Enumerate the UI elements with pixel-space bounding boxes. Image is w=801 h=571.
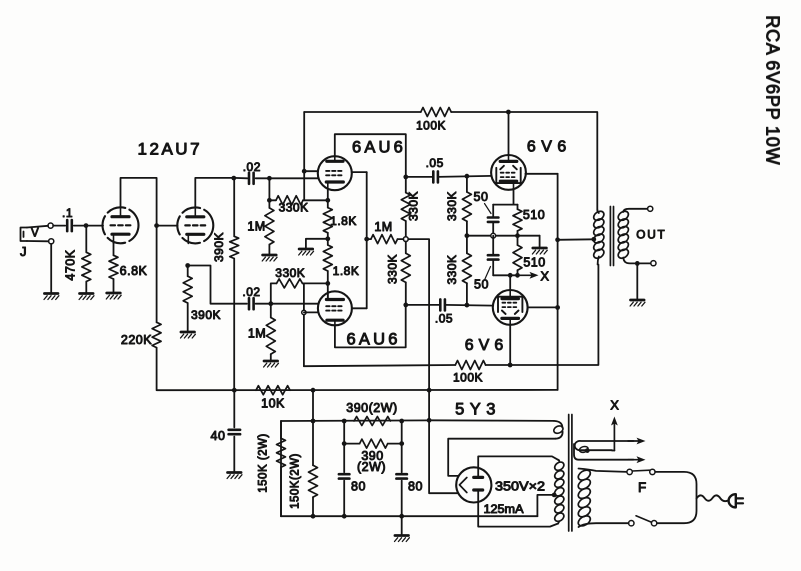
node 6V6 upper grid bbox=[465, 174, 470, 179]
wire feedback rail top bbox=[304, 111, 421, 113]
svg-text:1.8K: 1.8K bbox=[333, 264, 360, 278]
svg-text:6V6: 6V6 bbox=[465, 337, 508, 354]
wire rail top to OPT bbox=[451, 112, 597, 210]
wire row ground stub bbox=[401, 516, 403, 534]
fuse F bbox=[627, 469, 632, 474]
OPT core bbox=[609, 207, 611, 266]
pentode 6AU6 upper bbox=[318, 156, 352, 190]
resistor 390K cathode V2 bbox=[187, 266, 189, 277]
resistor 1.8K lower bbox=[327, 239, 329, 245]
svg-text:6V6: 6V6 bbox=[527, 139, 572, 156]
resistor 1M upper bbox=[268, 178, 270, 208]
node screen bus CT bbox=[555, 237, 560, 242]
node row right bbox=[399, 514, 404, 519]
node dropper right bbox=[399, 419, 404, 424]
wire rail bottom to OPT bbox=[486, 265, 599, 366]
wire 5V return bbox=[448, 439, 555, 476]
svg-text:330K: 330K bbox=[279, 201, 309, 215]
beam tube 6V6 lower bbox=[493, 290, 528, 325]
node dropper mid bbox=[342, 419, 347, 424]
svg-text:X: X bbox=[540, 269, 549, 284]
svg-text:330K: 330K bbox=[385, 254, 399, 284]
svg-text:12AU7: 12AU7 bbox=[138, 140, 202, 159]
ground 390K cathode bbox=[181, 331, 195, 334]
ground cathode mid bbox=[299, 248, 313, 251]
node cathode mid bbox=[325, 236, 330, 241]
node row left bbox=[311, 514, 316, 519]
node 6AU6 upper plate bbox=[403, 175, 408, 180]
wire B plus rail bbox=[157, 389, 558, 391]
resistor 150K 2W right bbox=[312, 421, 314, 465]
wire ground row bbox=[281, 515, 537, 517]
wire C3 out bbox=[256, 303, 271, 305]
ground supply bbox=[395, 534, 409, 537]
node rail divider bbox=[427, 388, 432, 393]
svg-text:510: 510 bbox=[523, 256, 545, 270]
wire B plus to filament bbox=[429, 420, 458, 493]
svg-text:330K: 330K bbox=[445, 254, 459, 284]
svg-text:6.8K: 6.8K bbox=[120, 264, 148, 278]
wire feedback rail bottom bbox=[304, 365, 455, 366]
wire 6V6 lower screen bbox=[528, 306, 558, 308]
switch bbox=[629, 521, 634, 526]
capacitor .1 bbox=[66, 220, 69, 231]
node V2 grid bbox=[154, 223, 159, 228]
wire C3 to 6AU6 grid side bbox=[271, 303, 319, 305]
svg-text:X: X bbox=[610, 398, 619, 413]
node 6V6 lower plate rail bbox=[508, 363, 513, 368]
wire 5Y3 plate bottom bbox=[478, 490, 558, 526]
power cord bbox=[697, 495, 729, 501]
svg-text:100K: 100K bbox=[453, 371, 483, 385]
node HV center tap bbox=[552, 493, 557, 498]
svg-text:.05: .05 bbox=[435, 312, 453, 326]
wire grid bus lower 6AU6 bbox=[303, 283, 305, 366]
5V winding loop bbox=[553, 424, 565, 434]
svg-text:330K: 330K bbox=[445, 191, 459, 221]
HV winding bbox=[553, 460, 565, 472]
node 50 junction bbox=[491, 233, 496, 238]
wire C2 out bbox=[256, 177, 270, 179]
capacitor 50 lower bbox=[492, 236, 494, 254]
svg-text:1M: 1M bbox=[374, 220, 392, 234]
wire divider node to B plus rail bbox=[408, 239, 429, 420]
resistor 330K bias upper bbox=[466, 176, 468, 192]
capacitor .05 lower bbox=[439, 299, 442, 310]
node B plus divider bbox=[403, 237, 408, 242]
capacitor .02 lower bbox=[248, 298, 251, 309]
node cathode upper 6AU6 bbox=[325, 198, 330, 203]
wire sec ground bbox=[636, 263, 638, 298]
svg-text:390K: 390K bbox=[191, 308, 221, 322]
svg-text:(2W): (2W) bbox=[357, 460, 386, 474]
node 390 right bbox=[399, 441, 404, 446]
resistor 100K upper feedback bbox=[421, 108, 451, 117]
svg-text:50: 50 bbox=[474, 278, 489, 292]
PT primary winding bbox=[576, 468, 592, 482]
svg-text:390(2W): 390(2W) bbox=[346, 401, 397, 415]
svg-text:510: 510 bbox=[523, 208, 545, 222]
resistor 330K plate load lower bbox=[405, 242, 407, 254]
wire C2 to 6AU6 grid side bbox=[269, 177, 318, 179]
node cathode lower bbox=[515, 273, 520, 278]
svg-text:220K: 220K bbox=[121, 333, 152, 347]
ground 40uF bbox=[228, 471, 242, 474]
arrow heater bottom bbox=[628, 459, 640, 461]
svg-text:80: 80 bbox=[351, 480, 366, 494]
wire OPT CT to screen bus bbox=[558, 238, 594, 241]
capacitor .05 upper bbox=[432, 171, 435, 182]
node heater CT bbox=[585, 448, 590, 453]
OPT secondary winding bbox=[616, 209, 630, 222]
wire V1 plate to V2 grid bbox=[121, 178, 178, 226]
pentode 6AU6 lower bbox=[318, 291, 352, 325]
svg-text:150K (2W): 150K (2W) bbox=[258, 433, 270, 492]
svg-text:50: 50 bbox=[474, 190, 489, 204]
node 330K tee upper bbox=[267, 198, 272, 203]
wire heater CT to X bbox=[612, 450, 614, 452]
svg-text:.02: .02 bbox=[243, 160, 261, 174]
resistor 330K plate load upper bbox=[405, 177, 407, 193]
AC plug bbox=[729, 494, 736, 507]
resistor 510 upper bbox=[517, 205, 519, 210]
resistor 510 lower bbox=[517, 236, 519, 245]
svg-text:.05: .05 bbox=[426, 156, 444, 170]
node grid stub upper bbox=[302, 169, 307, 174]
wire grid stub lower 6AU6 bbox=[304, 311, 318, 313]
svg-text:.1: .1 bbox=[62, 206, 73, 220]
resistor 390 2W upper bbox=[354, 417, 390, 426]
OPT primary winding bbox=[597, 210, 599, 214]
triode V1 (12AU7a) bbox=[103, 207, 139, 243]
svg-text:J: J bbox=[20, 244, 27, 259]
jack tip terminal bbox=[48, 223, 53, 228]
svg-text:6AU6: 6AU6 bbox=[352, 139, 406, 157]
resistor 390 2W lower bbox=[344, 421, 359, 444]
resistor 330K bias lower bbox=[466, 236, 468, 254]
arrow X heater bbox=[613, 423, 615, 451]
input jack J bbox=[21, 228, 28, 242]
wire C1 to V1 grid bbox=[74, 225, 103, 227]
wire cathode upper 6AU6 bbox=[327, 189, 329, 201]
resistor 100K lower feedback bbox=[455, 361, 485, 370]
node 510 junction bbox=[515, 233, 520, 238]
wire dropper tap bbox=[312, 390, 314, 421]
svg-text:330K: 330K bbox=[275, 266, 305, 280]
node row mid bbox=[342, 514, 347, 519]
triode V2 (12AU7b) bbox=[177, 207, 213, 243]
wire screen bus 6AU6 bbox=[366, 172, 368, 308]
ground cathode bus bbox=[533, 247, 547, 250]
svg-text:5Y3: 5Y3 bbox=[455, 401, 501, 419]
svg-text:1M: 1M bbox=[247, 220, 265, 234]
resistor 470K bbox=[85, 226, 87, 253]
svg-text:350V×2: 350V×2 bbox=[495, 479, 545, 494]
resistor 330K grid upper 6AU6 bbox=[269, 199, 276, 201]
node sec ground bbox=[635, 261, 640, 266]
wire screen stub lower 6AU6 bbox=[352, 307, 367, 309]
resistor 10K bbox=[256, 386, 290, 395]
node V2 cathode bbox=[185, 263, 190, 268]
node 6V6 plate top rail bbox=[506, 110, 511, 115]
resistor 390K plate load V2 bbox=[233, 178, 235, 236]
wire .05 upper wires bbox=[408, 176, 433, 178]
wire 5Y3 plate top bbox=[478, 456, 558, 476]
svg-text:V: V bbox=[31, 228, 39, 240]
wire screen bus 6V6 bbox=[557, 174, 559, 390]
wire screen stub upper 6AU6 bbox=[352, 171, 367, 173]
wire cathode bus upper bbox=[467, 235, 540, 237]
wire grid stub upper 6AU6 bbox=[304, 170, 318, 172]
node C3 out bbox=[268, 301, 273, 306]
node 6AU6 lower plate bbox=[403, 303, 408, 308]
node bias mid bbox=[465, 233, 470, 238]
ground OPT secondary bbox=[631, 299, 645, 302]
wire 6V6 upper plate bbox=[508, 112, 510, 155]
node B plus entry bbox=[427, 418, 432, 423]
svg-text:1.8K: 1.8K bbox=[330, 214, 357, 228]
resistor 1M lower bbox=[270, 304, 272, 318]
resistor 1.8K upper bbox=[327, 200, 329, 207]
ground 470K bbox=[80, 292, 94, 295]
wire sleeve to ground bbox=[50, 244, 52, 292]
svg-text:.02: .02 bbox=[242, 285, 260, 299]
arrow X bias bbox=[518, 274, 533, 276]
beam tube 6V6 upper bbox=[491, 155, 526, 190]
resistor 1M coupling bbox=[367, 238, 371, 240]
wire primary top bbox=[579, 469, 627, 472]
wire 6V6 upper screen bbox=[525, 173, 557, 175]
wire tip to C1 bbox=[53, 225, 65, 227]
wire 6AU6 upper plate bbox=[335, 134, 406, 174]
svg-text:150K(2W): 150K(2W) bbox=[290, 453, 302, 509]
node rail 40uF bbox=[232, 388, 237, 393]
svg-text:F: F bbox=[638, 480, 647, 495]
svg-text:100K: 100K bbox=[416, 119, 446, 133]
wire cathode mid to ground bbox=[306, 239, 328, 248]
wire 6AU6 lower plate bbox=[335, 307, 406, 347]
jack sleeve terminal bbox=[49, 239, 54, 244]
svg-text:OUT: OUT bbox=[636, 228, 666, 242]
node rail dropper bbox=[311, 388, 316, 393]
rectifier 5Y3 bbox=[456, 467, 491, 502]
resistor 220K bbox=[156, 226, 158, 323]
capacitor 50 upper bbox=[492, 205, 494, 217]
wire grid bus upper 6AU6 bbox=[303, 112, 305, 200]
svg-text:40: 40 bbox=[211, 429, 226, 443]
wire V2 plate bbox=[195, 178, 234, 208]
terminal OUT bottom bbox=[651, 261, 656, 266]
svg-text:10K: 10K bbox=[261, 397, 285, 411]
svg-text:80: 80 bbox=[408, 480, 423, 494]
wire 6V6 upper cathode bbox=[513, 190, 515, 205]
wire HV CT bbox=[537, 495, 554, 516]
capacitor .02 upper bbox=[248, 173, 251, 184]
resistor 6.8K bbox=[113, 243, 115, 255]
resistor 330K grid lower 6AU6 bbox=[271, 283, 277, 303]
svg-text:6AU6: 6AU6 bbox=[347, 331, 401, 349]
wire B plus to 5V loop bbox=[429, 419, 554, 422]
node 6V6 lower grid bbox=[465, 303, 470, 308]
wire .05 lower wires bbox=[408, 304, 440, 306]
node 390 left bbox=[342, 441, 347, 446]
capacitor 80 left bbox=[343, 444, 345, 473]
wire V2 cathode run bbox=[188, 266, 247, 304]
capacitor 40 bbox=[233, 390, 235, 427]
ground 6.8K bbox=[107, 292, 121, 295]
svg-text:125mA: 125mA bbox=[484, 502, 524, 516]
node grid stub lower bbox=[302, 310, 306, 314]
node grid V1 bbox=[84, 223, 89, 228]
ground jack bbox=[44, 292, 58, 295]
svg-text:470K: 470K bbox=[64, 249, 78, 280]
capacitor 80 right bbox=[401, 444, 403, 473]
PT core bbox=[568, 415, 570, 532]
wire primary bottom bbox=[579, 523, 629, 527]
ground 1M lower bbox=[264, 360, 278, 363]
svg-text:1M: 1M bbox=[248, 327, 266, 341]
node screen bus lower bbox=[555, 305, 560, 310]
wire primary loop bbox=[655, 472, 696, 523]
wire dropper row bbox=[281, 419, 429, 422]
resistor 150K 2W left bbox=[280, 421, 282, 438]
wire 6V6 lower plate bbox=[509, 324, 511, 365]
node screen bus mid bbox=[364, 237, 369, 242]
arrow heater top bbox=[628, 440, 640, 442]
node dropper left bbox=[311, 419, 316, 424]
ground 1M upper bbox=[263, 254, 277, 257]
svg-text:390K: 390K bbox=[212, 232, 226, 262]
heater winding bbox=[575, 441, 634, 450]
node OPT center tap bbox=[591, 237, 596, 242]
wire cathode bus lower bbox=[493, 274, 517, 276]
terminal OUT top bbox=[648, 206, 653, 211]
wire 6V6 lower cathode bbox=[509, 275, 511, 290]
svg-text:RCA 6V6PP 10W: RCA 6V6PP 10W bbox=[763, 15, 783, 165]
svg-text:330K: 330K bbox=[406, 191, 420, 221]
node C2 out bbox=[267, 176, 272, 181]
node V2 plate bbox=[231, 176, 236, 181]
